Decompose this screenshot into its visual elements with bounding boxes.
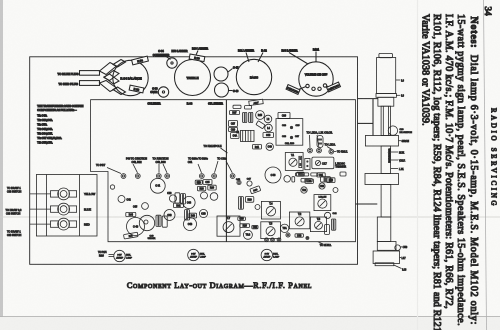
wire vertical bbox=[372, 99, 374, 136]
eyelet 1 bbox=[121, 174, 126, 179]
transformer T3 bbox=[310, 217, 326, 232]
capacitor C56 bbox=[265, 167, 281, 183]
eyelet FME bbox=[329, 149, 334, 154]
label R61 LADDER bbox=[238, 49, 254, 63]
label TO JUNCTION C40 R60 bbox=[152, 158, 168, 173]
label plate A127 bbox=[249, 99, 263, 105]
label R56 LADDER bbox=[171, 49, 187, 53]
transformer T1 bbox=[285, 153, 303, 171]
capacitor striped vertical bbox=[185, 210, 190, 220]
capacitor C36 pill low bbox=[238, 217, 246, 221]
shaft lower bbox=[381, 185, 391, 218]
shaft collar bbox=[377, 242, 396, 251]
capacitor cylinder C46 bbox=[215, 83, 239, 97]
resistor R39 bbox=[208, 185, 216, 190]
capacitor T6A disc bbox=[280, 224, 288, 232]
label TO R66s bbox=[188, 158, 209, 173]
switch bar 2 bbox=[365, 174, 399, 185]
label C64 CONDENSER bbox=[153, 49, 171, 60]
resistor R32 bbox=[327, 178, 335, 183]
coil L16 L15 bbox=[314, 195, 331, 211]
dial lamp 2 bbox=[188, 249, 207, 260]
resistor R43 bbox=[256, 121, 265, 129]
plug arrow cluster bbox=[100, 60, 126, 95]
capacitor C6 disc bbox=[255, 205, 260, 210]
panel divider line bbox=[225, 100, 227, 242]
eyelet A16 bbox=[286, 233, 290, 237]
potentiometer R66 TREBLE bbox=[175, 60, 211, 96]
speaker lead grommet panel bbox=[36, 175, 97, 237]
label CYLINDER left bbox=[147, 102, 160, 106]
switch bar GRAM bbox=[365, 136, 409, 147]
capacitor C44 disc right bbox=[325, 212, 331, 218]
resistor R45 vertical bbox=[243, 112, 247, 122]
coil L6 former body bbox=[377, 58, 405, 94]
capacitor C32 bbox=[252, 225, 258, 229]
label R101 bbox=[313, 48, 320, 62]
resistor R30 bbox=[250, 186, 261, 194]
label P66 TO JUNCTION C40 R32 bbox=[126, 158, 147, 173]
trimmer C64 bbox=[167, 58, 177, 68]
potentiometer R61 BASS bbox=[236, 59, 271, 94]
coil L18 cap bbox=[375, 263, 407, 272]
capacitor C47 disc bbox=[247, 181, 252, 186]
trimmer C66 bbox=[150, 87, 168, 97]
eyelet C42 bbox=[306, 237, 309, 240]
capacitor C44A bbox=[231, 133, 239, 139]
capacitor C49 disc bbox=[164, 210, 175, 221]
wire to red grommet bbox=[7, 224, 51, 237]
capacitor C42 disc bbox=[118, 196, 125, 203]
resistor right col tiny bbox=[340, 172, 346, 176]
label M.W. bbox=[391, 151, 405, 154]
capacitor C36 bbox=[278, 112, 290, 118]
capacitor R45 disc bbox=[256, 111, 265, 120]
resistor R40 bbox=[189, 213, 197, 218]
plug lead TO RED PLUG bbox=[58, 81, 99, 86]
label TO C61s bbox=[215, 158, 233, 173]
eyelet 2 bbox=[135, 174, 140, 179]
capacitor C49 vertical bbox=[162, 216, 167, 227]
capacitor small disc a bbox=[169, 195, 176, 202]
capacitor pillar between T1 and C17 bbox=[305, 159, 310, 170]
transformer T5 bbox=[261, 222, 281, 239]
resistor R37 bbox=[229, 111, 239, 115]
label TO F.M. DIPOLE bbox=[204, 145, 228, 153]
shaft lower wide bbox=[377, 217, 391, 242]
label TO L.W.S. L.W. CH.CH. bbox=[307, 132, 333, 148]
R.F./I.F. panel outline bbox=[91, 100, 356, 242]
capacitor TA2 disc bbox=[301, 187, 307, 193]
label plate R66 bbox=[189, 54, 205, 62]
resistor R41 bbox=[253, 145, 262, 150]
label TO P1/7 bbox=[96, 164, 121, 174]
capacitor disc b bbox=[201, 192, 208, 199]
plug lead TO BLUE PLUG bbox=[58, 71, 100, 76]
former lower section bbox=[378, 97, 394, 106]
capacitor C48 bbox=[184, 218, 197, 231]
shaft upper bbox=[381, 106, 391, 135]
chassis outer rectangle bbox=[30, 57, 358, 264]
wire to yellow grommet bbox=[7, 187, 51, 194]
capacitor C40 low pill bbox=[295, 234, 303, 238]
label R64 LADDER bbox=[281, 49, 308, 65]
capacitor C30 disc bbox=[319, 183, 325, 189]
resistor R33 bbox=[321, 177, 331, 182]
shaft middle with wavechange text bbox=[381, 146, 391, 174]
wire panel to shaft mid bbox=[356, 203, 378, 205]
wire stub bbox=[358, 122, 374, 124]
eyelet LWS 2 bbox=[317, 148, 322, 153]
eyelet 4 bbox=[165, 174, 170, 179]
capacitor C60 on shaft bbox=[388, 126, 412, 135]
coil L4 bbox=[265, 124, 273, 132]
resistor vertical pair a bbox=[175, 193, 180, 203]
label C40 UNDER bbox=[148, 236, 156, 241]
resistor R52 tall bbox=[317, 136, 323, 148]
grommet blue lead bbox=[51, 203, 92, 215]
coil L17 block bbox=[373, 251, 406, 264]
capacitor disc mid bbox=[284, 176, 291, 183]
resistor tiny vertical bbox=[292, 177, 295, 182]
bottom page fold area bbox=[0, 317, 500, 330]
capacitor vertical d bbox=[238, 197, 243, 210]
capacitor vertical right bbox=[331, 219, 335, 230]
resistor R34 bbox=[297, 172, 305, 176]
capacitor vertical right b bbox=[325, 225, 330, 235]
eyelet bottom 2 bbox=[271, 238, 275, 242]
eyelet LWS 1 bbox=[308, 148, 313, 153]
capacitor tag circle bbox=[139, 215, 154, 230]
label TO F.M.E. bbox=[334, 151, 348, 154]
capacitor C48 vertical bbox=[156, 215, 161, 226]
capacitor filler c bbox=[110, 185, 114, 189]
capacitor T63 disc bbox=[243, 230, 252, 239]
eyelet 6 bbox=[212, 174, 217, 179]
coil L8 band bbox=[376, 94, 404, 98]
capacitor pill top bbox=[311, 173, 318, 176]
transformer contents note bbox=[37, 104, 83, 145]
capacitor C20 bbox=[229, 127, 238, 131]
left scan edge strip bbox=[0, 0, 3, 330]
horizontal scan fold line bbox=[0, 216, 500, 218]
transformer T4 bbox=[261, 201, 280, 219]
label TO P1/4 R&S bbox=[98, 252, 114, 257]
capacitor disc c bbox=[210, 193, 218, 201]
capacitor C50 bbox=[395, 245, 408, 251]
transformer can outline T-can bbox=[276, 119, 303, 146]
capacitor C61 bbox=[150, 178, 165, 193]
capacitor C31 bbox=[317, 173, 325, 177]
dial lamp 3 bbox=[261, 249, 280, 260]
eyelet 5 bbox=[199, 174, 204, 179]
label TO L.W.S. bbox=[325, 144, 336, 150]
label L.W. OSC TRIMMER bbox=[335, 163, 346, 168]
coil L2 bbox=[264, 115, 272, 123]
resistor R20 bbox=[245, 197, 253, 203]
label L.W. bbox=[391, 168, 405, 171]
capacitor C38 disc bbox=[199, 209, 207, 217]
resistor R50 bbox=[305, 179, 313, 183]
wire panel to shaft top bbox=[358, 98, 378, 100]
label R64 bbox=[187, 102, 193, 106]
wire to blue grommet bbox=[6, 209, 51, 216]
transformer T7 bbox=[217, 216, 240, 236]
resistor pill top bbox=[295, 173, 308, 176]
label V.H.F. bbox=[391, 159, 406, 162]
capacitor filler a bbox=[233, 105, 241, 108]
label plate P1E PLUG left bbox=[286, 85, 300, 95]
resistor R26 bbox=[240, 224, 250, 228]
label plate P1E PLUG right bbox=[327, 82, 341, 92]
resistor pill mid bbox=[301, 179, 312, 183]
eyelet bottom 1 bbox=[265, 238, 269, 242]
potentiometer R84 BALANCE bbox=[113, 60, 148, 95]
trimmer C17 bbox=[312, 157, 334, 169]
capacitor C46 pill bbox=[263, 133, 274, 138]
resistor R38 bbox=[197, 186, 205, 190]
resistor vertical pair b bbox=[181, 194, 186, 204]
resistor R42 bbox=[173, 203, 183, 207]
dial lamp 1 bbox=[114, 250, 133, 261]
resistor R44 bbox=[126, 212, 136, 216]
coil L5 bbox=[236, 130, 254, 141]
label TO M.W.2. bbox=[318, 242, 332, 247]
potentiometer R101 VOLUME ON OFF bbox=[299, 62, 334, 96]
transformer T2 bbox=[289, 212, 309, 229]
right page rule bbox=[484, 0, 487, 330]
eyelet 7 bbox=[230, 174, 235, 179]
eyelet C43 bbox=[237, 180, 241, 184]
grommet red lead bbox=[51, 218, 90, 230]
capacitor C40 disc bbox=[266, 143, 273, 150]
capacitor C44 bbox=[183, 196, 195, 208]
resistor R47 bbox=[124, 232, 139, 239]
capacitor C35 bbox=[203, 180, 212, 185]
faint print-area edge bbox=[417, 0, 419, 330]
capacitor C27 bbox=[229, 121, 238, 127]
capacitor cylinder C47 bbox=[214, 66, 239, 81]
label plate R59 bbox=[129, 85, 144, 93]
resistor R46 vertical bbox=[249, 112, 253, 122]
eyelet bottom 3 bbox=[277, 238, 281, 242]
capacitor C45 disc bbox=[142, 203, 149, 210]
eyelet 3 bbox=[156, 174, 161, 179]
label CYLINDER right bbox=[208, 102, 223, 106]
resistor filler b bbox=[245, 106, 252, 109]
resistor R36 bbox=[195, 180, 202, 184]
coil former top cap bbox=[379, 53, 393, 57]
capacitor C40 large bbox=[127, 218, 145, 236]
grommet yellow lead bbox=[51, 188, 96, 200]
label R66 LADDER bbox=[192, 47, 208, 56]
label plate R84 bbox=[132, 56, 149, 65]
capacitor disc right col bbox=[333, 188, 338, 193]
label R62 bbox=[258, 49, 267, 63]
